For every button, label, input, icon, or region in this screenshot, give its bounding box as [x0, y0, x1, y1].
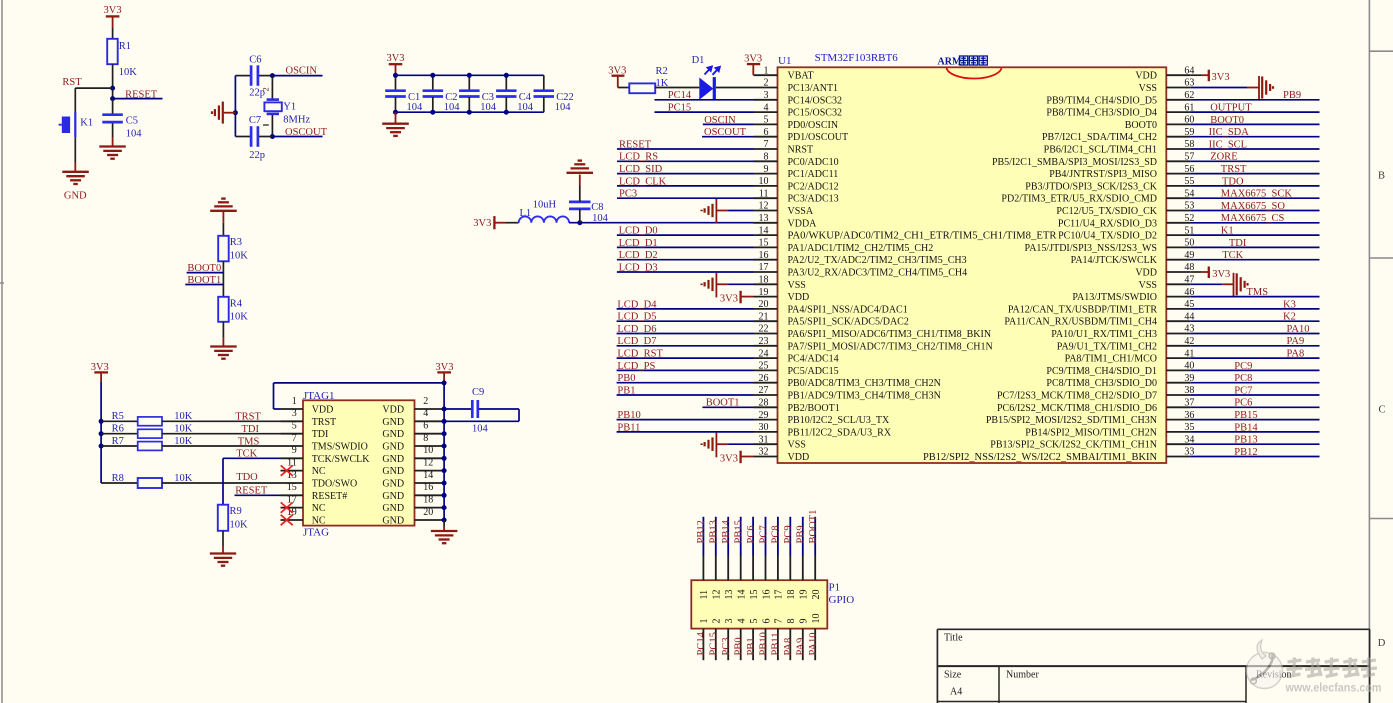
svg-text:PB11: PB11 — [617, 422, 640, 433]
svg-text:PB0: PB0 — [734, 637, 745, 655]
svg-text:PA10/U1_RX/TIM1_CH3: PA10/U1_RX/TIM1_CH3 — [1051, 329, 1157, 340]
svg-text:PA5/SPI1_SCK/ADC5/DAC2: PA5/SPI1_SCK/ADC5/DAC2 — [788, 317, 909, 328]
svg-text:TMS: TMS — [1247, 287, 1269, 298]
svg-text:9: 9 — [292, 445, 297, 456]
svg-text:LCD_RST: LCD_RST — [617, 349, 663, 360]
svg-text:4: 4 — [764, 102, 769, 113]
svg-text:R3: R3 — [230, 237, 242, 248]
svg-text:1: 1 — [292, 396, 297, 407]
svg-text:3V3: 3V3 — [1212, 72, 1230, 83]
svg-text:2: 2 — [764, 78, 769, 89]
svg-text:PC7: PC7 — [1234, 385, 1252, 396]
svg-text:L1: L1 — [520, 208, 532, 219]
svg-text:PC0/ADC10: PC0/ADC10 — [788, 157, 839, 168]
svg-text:VDD: VDD — [382, 405, 404, 416]
svg-text:Size: Size — [944, 670, 962, 681]
svg-text:104: 104 — [126, 128, 143, 139]
svg-text:11: 11 — [759, 188, 769, 199]
svg-text:PB1: PB1 — [746, 637, 757, 655]
svg-text:PA7/SPI1_MOSI/ADC7/TIM3_CH2/TI: PA7/SPI1_MOSI/ADC7/TIM3_CH2/TIM8_CH1N — [788, 341, 993, 352]
svg-text:C8: C8 — [591, 202, 603, 213]
svg-text:LCD_D2: LCD_D2 — [619, 250, 658, 261]
svg-text:6: 6 — [423, 421, 428, 432]
svg-text:JTAG: JTAG — [303, 527, 329, 539]
svg-text:VSS: VSS — [1139, 280, 1157, 291]
svg-text:PC9: PC9 — [1234, 361, 1252, 372]
svg-text:LCD_D5: LCD_D5 — [617, 312, 656, 323]
svg-text:3V3: 3V3 — [744, 54, 762, 65]
svg-text:Title: Title — [944, 633, 963, 644]
svg-text:31: 31 — [759, 434, 769, 445]
svg-text:D: D — [1378, 638, 1386, 649]
svg-text:OUTPUT: OUTPUT — [1210, 103, 1252, 114]
svg-text:R2: R2 — [656, 66, 668, 77]
svg-text:PC9: PC9 — [783, 525, 794, 543]
svg-text:BOOT1: BOOT1 — [808, 510, 819, 544]
svg-text:104: 104 — [472, 423, 489, 434]
svg-text:6: 6 — [761, 619, 772, 624]
svg-text:PB13/SPI2_SCK/I2S2_CK/TIM1_CH1: PB13/SPI2_SCK/I2S2_CK/TIM1_CH1N — [990, 440, 1157, 451]
svg-text:PB6/I2C1_SCL/TIM4_CH1: PB6/I2C1_SCL/TIM4_CH1 — [1044, 145, 1157, 156]
svg-text:LCD_D3: LCD_D3 — [619, 262, 658, 273]
svg-text:14: 14 — [759, 225, 769, 236]
svg-text:K3: K3 — [1283, 299, 1296, 310]
svg-text:10K: 10K — [174, 411, 193, 422]
svg-text:PC8: PC8 — [1234, 373, 1252, 384]
svg-text:10K: 10K — [230, 250, 249, 261]
svg-text:R5: R5 — [112, 411, 124, 422]
svg-text:PC10/U4_TX/SDIO_D2: PC10/U4_TX/SDIO_D2 — [1058, 231, 1157, 242]
svg-text:7: 7 — [774, 619, 785, 624]
svg-text:3V3: 3V3 — [435, 362, 453, 373]
svg-text:PB10: PB10 — [758, 632, 769, 655]
svg-text:LCD_D7: LCD_D7 — [617, 336, 656, 347]
svg-text:32: 32 — [759, 447, 769, 458]
svg-text:BOOT1: BOOT1 — [706, 398, 740, 409]
svg-text:22p: 22p — [249, 150, 265, 161]
svg-text:GND: GND — [64, 190, 87, 201]
svg-text:PC7: PC7 — [758, 525, 769, 543]
svg-text:MAX6675_CS: MAX6675_CS — [1221, 213, 1285, 224]
svg-text:PC15/OSC32: PC15/OSC32 — [788, 108, 842, 119]
svg-text:RESET: RESET — [619, 139, 652, 150]
svg-text:PC11/U4_RX/SDIO_D3: PC11/U4_RX/SDIO_D3 — [1058, 218, 1157, 229]
svg-text:PC6/I2S2_MCK/TIM8_CH1/SDIO_D6: PC6/I2S2_MCK/TIM8_CH1/SDIO_D6 — [997, 403, 1157, 414]
svg-text:IIC_SCL: IIC_SCL — [1209, 139, 1248, 150]
svg-text:TCK: TCK — [1222, 250, 1243, 261]
svg-text:20: 20 — [423, 507, 433, 518]
svg-text:TDI: TDI — [1229, 238, 1247, 249]
svg-text:PC5/ADC15: PC5/ADC15 — [788, 366, 839, 377]
svg-text:MAX6675_SO: MAX6675_SO — [1221, 201, 1286, 212]
svg-text:JTAG1: JTAG1 — [303, 390, 335, 402]
svg-text:PA6/SPI1_MISO/ADC6/TIM3_CH1/TI: PA6/SPI1_MISO/ADC6/TIM3_CH1/TIM8_BKIN — [788, 329, 992, 340]
svg-text:20: 20 — [811, 590, 822, 600]
svg-text:3V3: 3V3 — [91, 362, 109, 373]
svg-text:7: 7 — [292, 433, 297, 444]
svg-text:Y1: Y1 — [283, 102, 296, 113]
svg-text:NC: NC — [312, 503, 326, 514]
svg-text:28: 28 — [759, 398, 769, 409]
svg-text:RESET#: RESET# — [312, 491, 348, 502]
svg-text:3: 3 — [292, 408, 297, 419]
svg-text:8: 8 — [764, 152, 769, 163]
svg-text:PA8: PA8 — [783, 638, 794, 656]
svg-text:NC: NC — [312, 466, 326, 477]
svg-text:22: 22 — [759, 324, 769, 335]
svg-text:VSSA: VSSA — [788, 206, 814, 217]
svg-text:TRST: TRST — [1221, 164, 1247, 175]
svg-text:2: 2 — [712, 619, 723, 624]
svg-text:14: 14 — [423, 470, 433, 481]
svg-text:PA1/ADC1/TIM2_CH2/TIM5_CH2: PA1/ADC1/TIM2_CH2/TIM5_CH2 — [788, 243, 934, 254]
svg-text:PA12/CAN_TX/USBDP/TIM1_ETR: PA12/CAN_TX/USBDP/TIM1_ETR — [1008, 304, 1157, 315]
svg-text:3V3: 3V3 — [386, 53, 404, 64]
svg-text:16: 16 — [423, 482, 433, 493]
svg-text:PC15: PC15 — [709, 632, 720, 655]
svg-text:PC14: PC14 — [668, 90, 692, 101]
svg-text:TDI: TDI — [242, 424, 260, 435]
svg-text:LCD_D1: LCD_D1 — [619, 238, 658, 249]
svg-text:LCD_D0: LCD_D0 — [619, 226, 658, 237]
svg-text:RST: RST — [62, 77, 82, 88]
svg-text:PA13/JTMS/SWDIO: PA13/JTMS/SWDIO — [1072, 292, 1157, 303]
svg-text:TMS/SWDIO: TMS/SWDIO — [312, 442, 368, 453]
svg-text:104: 104 — [480, 102, 497, 113]
svg-text:Number: Number — [1006, 670, 1039, 681]
svg-text:PB13: PB13 — [1234, 435, 1257, 446]
svg-text:PC12/U5_TX/SDIO_CK: PC12/U5_TX/SDIO_CK — [1056, 206, 1157, 217]
svg-text:R9: R9 — [230, 506, 242, 517]
svg-text:PB9: PB9 — [1283, 90, 1301, 101]
svg-text:PC14/OSC32: PC14/OSC32 — [788, 95, 842, 106]
svg-text:PA2/U2_TX/ADC2/TIM2_CH3/TIM5_C: PA2/U2_TX/ADC2/TIM2_CH3/TIM5_CH3 — [788, 255, 967, 266]
svg-text:27: 27 — [759, 385, 769, 396]
svg-text:5: 5 — [764, 115, 769, 126]
svg-text:PA15/JTDI/SPI3_NSS/I2S3_WS: PA15/JTDI/SPI3_NSS/I2S3_WS — [1025, 243, 1157, 254]
svg-text:PB8/TIM4_CH3/SDIO_D4: PB8/TIM4_CH3/SDIO_D4 — [1046, 108, 1157, 119]
svg-text:C9: C9 — [472, 387, 484, 398]
svg-text:16: 16 — [761, 590, 772, 600]
svg-text:12: 12 — [759, 201, 769, 212]
svg-text:PA9: PA9 — [796, 638, 807, 656]
svg-text:PB11: PB11 — [771, 633, 782, 656]
svg-text:2: 2 — [261, 87, 271, 91]
svg-text:PA14/JTCK/SWCLK: PA14/JTCK/SWCLK — [1071, 255, 1158, 266]
svg-text:8MHz: 8MHz — [283, 114, 310, 125]
svg-text:VDD: VDD — [788, 292, 810, 303]
svg-text:26: 26 — [759, 373, 769, 384]
svg-text:3V3: 3V3 — [720, 453, 738, 464]
svg-text:PC3: PC3 — [619, 189, 637, 200]
svg-text:GND: GND — [382, 516, 404, 527]
svg-text:10: 10 — [759, 176, 769, 187]
svg-text:PA11/CAN_RX/USBDM/TIM1_CH4: PA11/CAN_RX/USBDM/TIM1_CH4 — [1004, 317, 1157, 328]
svg-text:17: 17 — [759, 262, 769, 273]
svg-text:LCD_RS: LCD_RS — [619, 152, 658, 163]
svg-text:R8: R8 — [112, 473, 124, 484]
svg-text:3: 3 — [724, 619, 735, 624]
svg-text:23: 23 — [759, 336, 769, 347]
svg-text:PA8: PA8 — [1287, 349, 1305, 360]
svg-text:7: 7 — [764, 139, 769, 150]
svg-text:18: 18 — [423, 494, 433, 505]
svg-text:1: 1 — [764, 65, 769, 76]
svg-text:PB1: PB1 — [617, 385, 635, 396]
svg-text:TDO: TDO — [236, 472, 258, 483]
svg-text:PA4/SPI1_NSS/ADC4/DAC1: PA4/SPI1_NSS/ADC4/DAC1 — [788, 304, 908, 315]
svg-text:PB13: PB13 — [709, 520, 720, 543]
svg-text:PA9: PA9 — [1287, 336, 1305, 347]
svg-text:6: 6 — [764, 127, 769, 138]
svg-text:24: 24 — [759, 348, 769, 359]
svg-text:3V3: 3V3 — [104, 5, 122, 16]
svg-text:PD2/TIM3_ETR/U5_RX/SDIO_CMD: PD2/TIM3_ETR/U5_RX/SDIO_CMD — [1001, 194, 1157, 205]
svg-text:15: 15 — [749, 590, 760, 600]
svg-text:C: C — [1378, 405, 1385, 416]
svg-text:PC8: PC8 — [771, 525, 782, 543]
svg-text:18: 18 — [786, 590, 797, 600]
svg-text:GND: GND — [382, 466, 404, 477]
svg-text:PA8/TIM1_CH1/MCO: PA8/TIM1_CH1/MCO — [1065, 354, 1157, 365]
svg-text:PB12/SPI2_NSS/I2S2_WS/I2C2_SMB: PB12/SPI2_NSS/I2S2_WS/I2C2_SMBAI/TIM1_BK… — [923, 452, 1157, 463]
svg-text:GND: GND — [382, 479, 404, 490]
svg-text:OSCIN: OSCIN — [704, 115, 736, 126]
svg-text:K2: K2 — [1283, 312, 1296, 323]
svg-text:3: 3 — [764, 90, 769, 101]
svg-text:PB9: PB9 — [796, 525, 807, 543]
svg-text:104: 104 — [555, 102, 572, 113]
svg-text:15: 15 — [287, 482, 297, 493]
svg-text:IIC_SDA: IIC_SDA — [1209, 127, 1250, 138]
svg-text:R7: R7 — [112, 436, 124, 447]
svg-text:K1: K1 — [80, 118, 93, 129]
svg-text:TCK/SWCLK: TCK/SWCLK — [312, 454, 371, 465]
svg-text:104: 104 — [407, 102, 424, 113]
svg-text:12: 12 — [712, 590, 723, 600]
svg-text:17: 17 — [774, 590, 785, 600]
svg-text:PD1/OSCOUT: PD1/OSCOUT — [788, 132, 849, 143]
svg-text:10K: 10K — [174, 473, 193, 484]
svg-text:LCD_D6: LCD_D6 — [617, 324, 656, 335]
svg-text:5: 5 — [749, 619, 760, 624]
svg-text:PC1/ADC11: PC1/ADC11 — [788, 169, 839, 180]
svg-text:25: 25 — [759, 361, 769, 372]
svg-text:C6: C6 — [249, 55, 261, 66]
svg-text:PA0/WKUP/ADC0/TIM2_CH1_ETR/TIM: PA0/WKUP/ADC0/TIM2_CH1_ETR/TIM5_CH1/TIM8… — [788, 231, 1057, 242]
svg-text:LCD_CLK: LCD_CLK — [619, 176, 667, 187]
svg-text:TDO: TDO — [1222, 176, 1244, 187]
svg-text:3V3: 3V3 — [720, 293, 738, 304]
svg-text:PC15: PC15 — [668, 103, 691, 114]
svg-text:GND: GND — [382, 491, 404, 502]
svg-text:PC13/ANT1: PC13/ANT1 — [788, 83, 839, 94]
svg-text:TRST: TRST — [312, 417, 336, 428]
svg-text:GND: GND — [382, 417, 404, 428]
svg-text:U1: U1 — [778, 55, 791, 67]
svg-text:PC3: PC3 — [721, 637, 732, 655]
svg-text:NC: NC — [312, 516, 326, 527]
svg-text:PC3/ADC13: PC3/ADC13 — [788, 194, 839, 205]
svg-text:10K: 10K — [174, 436, 193, 447]
svg-text:PB3/JTDO/SPI3_SCK/I2S3_CK: PB3/JTDO/SPI3_SCK/I2S3_CK — [1025, 181, 1157, 192]
svg-text:13: 13 — [759, 213, 769, 224]
svg-text:PA10: PA10 — [1287, 324, 1310, 335]
svg-text:RESET: RESET — [235, 486, 268, 497]
svg-text:15: 15 — [759, 238, 769, 249]
svg-text:VBAT: VBAT — [788, 71, 814, 82]
svg-text:LCD_PS: LCD_PS — [617, 361, 655, 372]
svg-text:29: 29 — [759, 410, 769, 421]
svg-text:STM32F103RBT6: STM32F103RBT6 — [815, 52, 899, 64]
svg-text:PB12: PB12 — [696, 520, 707, 543]
svg-text:PB15: PB15 — [1234, 410, 1257, 421]
svg-text:10K: 10K — [230, 519, 249, 530]
svg-text:TCK: TCK — [236, 449, 257, 460]
svg-text:9: 9 — [764, 164, 769, 175]
svg-text:R1: R1 — [119, 41, 131, 52]
svg-text:PC6: PC6 — [746, 525, 757, 543]
svg-text:4: 4 — [737, 619, 748, 624]
svg-text:PB1/ADC9/TIM3_CH4/TIM8_CH3N: PB1/ADC9/TIM3_CH4/TIM8_CH3N — [788, 391, 941, 402]
svg-text:10K: 10K — [174, 424, 193, 435]
svg-text:TRST: TRST — [235, 412, 261, 423]
svg-text:3V3: 3V3 — [473, 218, 491, 229]
svg-text:R6: R6 — [112, 424, 124, 435]
svg-text:VSS: VSS — [1139, 83, 1157, 94]
svg-text:ZORE: ZORE — [1210, 152, 1237, 163]
svg-text:TDO/SWO: TDO/SWO — [312, 479, 358, 490]
svg-text:PB4/JNTRST/SPI3_MISO: PB4/JNTRST/SPI3_MISO — [1049, 169, 1157, 180]
svg-text:OSCOUT: OSCOUT — [704, 127, 747, 138]
svg-text:VSS: VSS — [788, 280, 806, 291]
svg-text:GND: GND — [382, 442, 404, 453]
svg-text:P1: P1 — [829, 582, 841, 594]
svg-text:PB15: PB15 — [734, 520, 745, 543]
svg-text:C5: C5 — [126, 116, 138, 127]
svg-text:19: 19 — [759, 287, 769, 298]
svg-text:C7: C7 — [249, 115, 261, 126]
svg-text:PB14/SPI2_MISO/TIM1_CH2N: PB14/SPI2_MISO/TIM1_CH2N — [1025, 427, 1157, 438]
svg-text:GND: GND — [382, 454, 404, 465]
svg-text:PC7/I2S3_MCK/TIM8_CH2/SDIO_D7: PC7/I2S3_MCK/TIM8_CH2/SDIO_D7 — [997, 391, 1157, 402]
svg-text:TMS: TMS — [238, 436, 260, 447]
svg-text:5: 5 — [292, 421, 297, 432]
svg-text:VSS: VSS — [788, 440, 806, 451]
svg-text:PC4/ADC14: PC4/ADC14 — [788, 354, 839, 365]
svg-text:PA3/U2_RX/ADC3/TIM2_CH4/TIM5_C: PA3/U2_RX/ADC3/TIM2_CH4/TIM5_CH4 — [788, 268, 968, 279]
svg-text:GND: GND — [382, 429, 404, 440]
svg-text:VDD: VDD — [312, 405, 334, 416]
svg-text:PB9/TIM4_CH4/SDIO_D5: PB9/TIM4_CH4/SDIO_D5 — [1046, 95, 1157, 106]
svg-text:3V3: 3V3 — [1212, 269, 1230, 280]
svg-text:ARM: ARM — [938, 56, 962, 67]
svg-text:30: 30 — [759, 422, 769, 433]
svg-text:10: 10 — [423, 445, 433, 456]
svg-text:PC6: PC6 — [1234, 398, 1252, 409]
svg-text:104: 104 — [444, 102, 461, 113]
svg-text:14: 14 — [737, 590, 748, 600]
svg-text:8: 8 — [423, 433, 428, 444]
svg-text:12: 12 — [423, 457, 433, 468]
svg-text:A4: A4 — [950, 687, 962, 698]
svg-text:TDI: TDI — [312, 429, 329, 440]
svg-text:10K: 10K — [119, 67, 138, 78]
svg-text:LCD_D4: LCD_D4 — [617, 299, 657, 310]
svg-text:4: 4 — [423, 408, 428, 419]
svg-text:K1: K1 — [1221, 226, 1234, 237]
svg-text:11: 11 — [699, 590, 710, 600]
svg-text:PB7/I2C1_SDA/TIM4_CH2: PB7/I2C1_SDA/TIM4_CH2 — [1042, 132, 1157, 143]
svg-text:2: 2 — [423, 396, 428, 407]
svg-text:104: 104 — [592, 213, 609, 224]
svg-text:R4: R4 — [230, 298, 243, 309]
svg-text:PC14: PC14 — [696, 631, 707, 655]
svg-text:D1: D1 — [692, 55, 705, 66]
svg-text:PD0/OSCIN: PD0/OSCIN — [788, 120, 839, 131]
svg-text:1: 1 — [699, 619, 710, 624]
svg-text:PA9/U1_TX/TIM1_CH2: PA9/U1_TX/TIM1_CH2 — [1057, 341, 1157, 352]
svg-text:PB14: PB14 — [1234, 422, 1258, 433]
svg-text:PB2/BOOT1: PB2/BOOT1 — [788, 403, 840, 414]
svg-text:PB12: PB12 — [1234, 447, 1257, 458]
svg-text:PB5/I2C1_SMBA/SPI3_MOSI/I2S3_S: PB5/I2C1_SMBA/SPI3_MOSI/I2S3_SD — [992, 157, 1157, 168]
svg-text:PB0/ADC8/TIM3_CH3/TIM8_CH2N: PB0/ADC8/TIM3_CH3/TIM8_CH2N — [788, 378, 941, 389]
svg-text:PC9/TIM8_CH4/SDIO_D1: PC9/TIM8_CH4/SDIO_D1 — [1046, 366, 1157, 377]
svg-text:8: 8 — [786, 619, 797, 624]
svg-text:PB0: PB0 — [617, 373, 635, 384]
svg-text:PB14: PB14 — [721, 519, 732, 543]
svg-text:16: 16 — [759, 250, 769, 261]
svg-text:13: 13 — [724, 590, 735, 600]
svg-text:PB10/I2C2_SCL/U3_TX: PB10/I2C2_SCL/U3_TX — [788, 415, 890, 426]
svg-text:VDDA: VDDA — [788, 218, 818, 229]
svg-text:PB10: PB10 — [617, 410, 640, 421]
svg-text:18: 18 — [759, 275, 769, 286]
svg-text:GND: GND — [382, 503, 404, 514]
svg-text:PA10: PA10 — [808, 633, 819, 656]
svg-text:NRST: NRST — [788, 145, 814, 156]
svg-text:10: 10 — [811, 614, 822, 624]
svg-text:GPIO: GPIO — [829, 594, 855, 606]
svg-text:10uH: 10uH — [533, 200, 557, 211]
svg-text:9: 9 — [799, 619, 810, 624]
svg-text:PC8/TIM8_CH3/SDIO_D0: PC8/TIM8_CH3/SDIO_D0 — [1046, 378, 1157, 389]
svg-text:10K: 10K — [230, 311, 249, 322]
svg-text:104: 104 — [517, 102, 534, 113]
svg-text:MAX6675_SCK: MAX6675_SCK — [1221, 189, 1293, 200]
svg-text:21: 21 — [759, 311, 769, 322]
svg-text:19: 19 — [799, 590, 810, 600]
svg-text:VDD: VDD — [788, 452, 810, 463]
svg-text:LCD_SID: LCD_SID — [619, 164, 663, 175]
svg-text:PB11/I2C2_SDA/U3_RX: PB11/I2C2_SDA/U3_RX — [788, 427, 892, 438]
svg-text:BOOT0: BOOT0 — [1210, 115, 1244, 126]
svg-text:VDD: VDD — [1135, 71, 1157, 82]
svg-text:OSCIN: OSCIN — [286, 65, 318, 76]
svg-text:B: B — [1378, 171, 1385, 182]
svg-text:20: 20 — [759, 299, 769, 310]
svg-text:www.elecfans.com: www.elecfans.com — [1285, 681, 1382, 695]
svg-text:BOOT0: BOOT0 — [1125, 120, 1157, 131]
svg-text:VDD: VDD — [1135, 268, 1157, 279]
svg-text:PC2/ADC12: PC2/ADC12 — [788, 181, 839, 192]
svg-text:PB15/SPI2_MOSI/I2S2_SD/TIM1_CH: PB15/SPI2_MOSI/I2S2_SD/TIM1_CH3N — [986, 415, 1157, 426]
